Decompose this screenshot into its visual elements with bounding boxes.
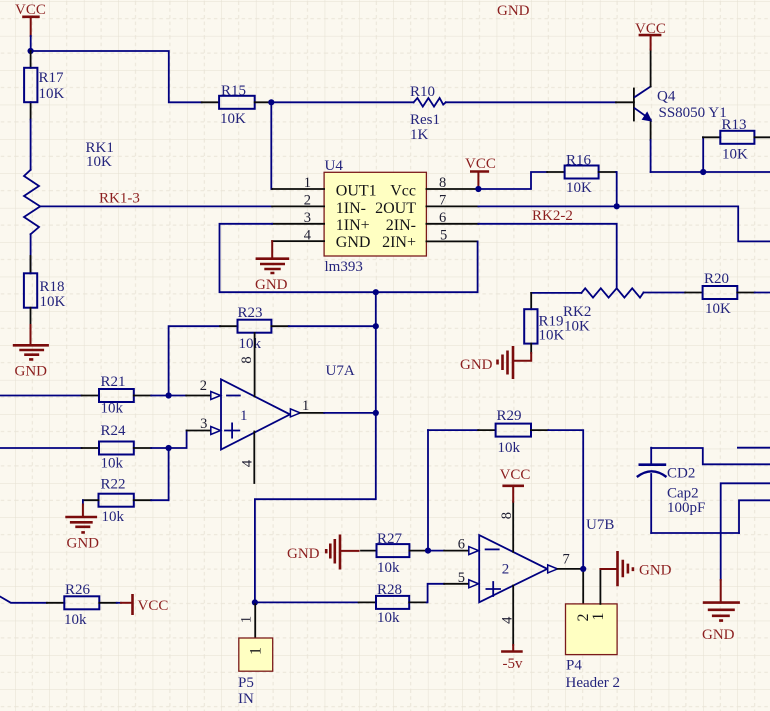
- svg-text:10k: 10k: [101, 456, 124, 472]
- resistor R24: [0, 423, 211, 472]
- wire R28 input net: [255, 601, 359, 603]
- node VCC top-left junction: [28, 48, 34, 54]
- power port GND (top net label): [497, 3, 530, 19]
- svg-text:VCC: VCC: [138, 598, 169, 614]
- wire U4 pin 6 net to RK2 wiper: [478, 224, 616, 288]
- svg-text:10K: 10K: [86, 154, 112, 170]
- svg-text:6: 6: [458, 537, 465, 553]
- wire right edge net to ground: [721, 483, 770, 580]
- svg-text:GND: GND: [702, 627, 735, 643]
- svg-text:RK1-3: RK1-3: [99, 191, 140, 207]
- ground bottom right: [702, 580, 740, 643]
- header P5: [238, 602, 273, 707]
- svg-text:GND: GND: [497, 3, 530, 19]
- svg-text:2IN-: 2IN-: [386, 217, 416, 234]
- svg-text:R20: R20: [704, 271, 729, 287]
- ground at R27 (sideways): [287, 535, 359, 570]
- pin 7 of U4: [426, 193, 478, 209]
- svg-text:100pF: 100pF: [667, 500, 705, 516]
- resistor R22: [83, 477, 169, 525]
- potentiometer RK2: [563, 288, 703, 334]
- svg-text:8: 8: [239, 356, 255, 363]
- svg-text:OUT1: OUT1: [336, 183, 377, 200]
- node R15/R10/U4 junction: [268, 99, 274, 105]
- wire Q4 emitter net to right edge: [651, 171, 770, 173]
- pin 2 of U4: [272, 193, 324, 209]
- ground at P4 pin 1 (sideways): [600, 551, 671, 586]
- IC U4 lm393: [324, 158, 426, 275]
- svg-text:1: 1: [239, 616, 255, 623]
- wire U7B output to P4: [558, 568, 583, 570]
- capacitor CD2: [637, 448, 706, 533]
- svg-text:SS8050 Y1: SS8050 Y1: [659, 105, 727, 121]
- svg-text:RK2-2: RK2-2: [532, 208, 573, 224]
- svg-text:R26: R26: [65, 582, 91, 598]
- resistor R28: [376, 582, 469, 626]
- resistor R13: [703, 117, 770, 172]
- svg-text:R10: R10: [410, 84, 435, 100]
- pin 2 of U7A: [200, 378, 221, 400]
- resistor R15: [219, 83, 271, 127]
- wire right edge stub to CD2 bottom net: [739, 500, 770, 533]
- svg-text:5: 5: [440, 228, 447, 244]
- svg-text:10K: 10K: [539, 328, 565, 344]
- svg-text:8: 8: [439, 175, 446, 191]
- wire R24 junction down to R22: [168, 448, 170, 500]
- resistor R26: [0, 582, 121, 628]
- power port VCC (top-left): [15, 2, 46, 51]
- header P4: [566, 569, 621, 691]
- pin 4 of U4: [272, 228, 324, 244]
- ground at R19 (sideways): [460, 346, 531, 379]
- ground below R22: [65, 505, 99, 552]
- power port VCC at U7B pin 8: [500, 467, 531, 502]
- wire junction to R10: [271, 101, 413, 103]
- op-amp U7B: [479, 517, 614, 602]
- svg-text:10k: 10k: [377, 560, 400, 576]
- node U7B output junction: [580, 566, 586, 572]
- svg-text:GND: GND: [67, 536, 100, 552]
- wire U4 pin 3 loop to pin 5: [220, 224, 478, 292]
- svg-text:Res1: Res1: [410, 112, 440, 128]
- svg-text:3: 3: [200, 416, 207, 432]
- pin 6 of U4: [426, 210, 478, 226]
- svg-text:GND: GND: [255, 277, 288, 293]
- node P5/R28 junction: [252, 599, 258, 605]
- resistor R29: [428, 408, 583, 569]
- svg-text:R27: R27: [377, 531, 403, 547]
- svg-text:10k: 10k: [377, 610, 400, 626]
- ground below R18: [13, 328, 49, 380]
- wire U4 pin 8 to R16: [478, 172, 547, 189]
- svg-text:10K: 10K: [40, 294, 66, 310]
- svg-text:GND: GND: [460, 357, 493, 373]
- transistor Q4 base bar: [633, 89, 635, 121]
- wire stub top right edge: [738, 447, 770, 449]
- pin 7 of U7B (output): [548, 552, 570, 573]
- resistor R27: [361, 531, 469, 576]
- pin 8 of U7B: [499, 502, 515, 552]
- wire VCC junction to R15: [31, 51, 202, 102]
- svg-text:R24: R24: [101, 423, 127, 439]
- wire CD2 bottom net: [651, 532, 739, 534]
- svg-text:10K: 10K: [566, 180, 592, 196]
- svg-text:1: 1: [302, 398, 309, 414]
- wire R29 to pin 6 junction: [427, 430, 429, 550]
- potentiometer RK1: [24, 140, 114, 273]
- svg-text:CD2: CD2: [667, 466, 695, 482]
- svg-text:P5: P5: [238, 675, 254, 691]
- svg-text:Header 2: Header 2: [566, 675, 621, 691]
- resistor R10 (Res1 zigzag): [410, 84, 446, 143]
- svg-text:10K: 10K: [220, 111, 246, 127]
- power port VCC at U4 pin 8: [465, 156, 496, 187]
- svg-text:P4: P4: [566, 658, 582, 674]
- node U7A output junction: [373, 410, 379, 416]
- svg-text:-5v: -5v: [503, 656, 523, 672]
- svg-text:R23: R23: [238, 305, 263, 321]
- pin 5 of U4: [426, 228, 477, 244]
- pin 1 of U7A (output): [290, 398, 309, 417]
- node R21/R23 junction: [166, 392, 172, 398]
- node emitter/R13 junction: [700, 169, 706, 175]
- svg-text:R17: R17: [39, 70, 65, 86]
- svg-text:3: 3: [304, 210, 311, 226]
- node VCC junction on pin 8 net: [475, 186, 481, 192]
- svg-text:U7B: U7B: [586, 517, 614, 533]
- pin 5 of U7B: [458, 570, 479, 588]
- resistor R18: [24, 256, 66, 329]
- power port -5v at U7B pin 4: [501, 645, 523, 672]
- svg-text:R29: R29: [497, 408, 522, 424]
- pin 4 of U7A: [240, 432, 256, 484]
- svg-text:GND: GND: [287, 546, 320, 562]
- wire U7A output chain: [300, 412, 324, 414]
- svg-text:1IN+: 1IN+: [336, 217, 370, 234]
- svg-text:R28: R28: [377, 582, 402, 598]
- wire CD2 top to right edge: [651, 448, 770, 464]
- op-amp U7A: [221, 363, 355, 450]
- svg-text:U4: U4: [325, 158, 344, 174]
- resistor R16: [565, 153, 617, 207]
- svg-text:10K: 10K: [564, 318, 590, 334]
- svg-text:IN: IN: [238, 691, 254, 707]
- ground at U4 pin 4: [255, 241, 289, 293]
- resistor R21: [0, 374, 211, 417]
- pin 8 of U4: [426, 175, 478, 191]
- svg-text:2: 2: [200, 378, 207, 394]
- svg-text:10k: 10k: [101, 401, 124, 417]
- svg-text:R18: R18: [40, 279, 65, 295]
- resistor R23: [169, 305, 376, 395]
- svg-text:2OUT: 2OUT: [375, 200, 416, 217]
- svg-text:10k: 10k: [498, 440, 521, 456]
- svg-text:2: 2: [304, 193, 311, 209]
- wire RK1 wiper to U4 pin 2: [40, 205, 272, 207]
- svg-text:R21: R21: [101, 374, 126, 390]
- node loop junction to U7A output: [373, 289, 379, 295]
- svg-text:1K: 1K: [410, 127, 429, 143]
- svg-text:R16: R16: [566, 153, 592, 169]
- svg-text:Vcc: Vcc: [390, 183, 416, 200]
- svg-text:6: 6: [439, 210, 446, 226]
- svg-text:GND: GND: [15, 364, 48, 380]
- svg-text:1IN-: 1IN-: [336, 200, 366, 217]
- svg-text:7: 7: [439, 193, 446, 209]
- svg-text:8: 8: [499, 512, 515, 519]
- svg-text:1: 1: [248, 647, 265, 655]
- svg-text:10k: 10k: [239, 336, 262, 352]
- svg-text:GND: GND: [639, 563, 672, 579]
- pin 3 of U4: [272, 210, 324, 226]
- pin 3 of U7A: [200, 416, 220, 435]
- pin 6 of U7B: [458, 537, 479, 555]
- svg-text:2: 2: [502, 562, 510, 578]
- svg-text:4: 4: [499, 616, 515, 624]
- power port VCC at Q4 collector: [635, 21, 666, 50]
- svg-text:10k: 10k: [102, 509, 125, 525]
- svg-text:1: 1: [240, 408, 248, 424]
- svg-text:R13: R13: [722, 117, 747, 133]
- svg-text:1: 1: [304, 175, 311, 191]
- svg-text:lm393: lm393: [325, 259, 363, 275]
- resistor R17: [24, 51, 64, 170]
- svg-text:4: 4: [240, 459, 256, 467]
- node R16 to pin 7 junction: [614, 203, 620, 209]
- svg-text:VCC: VCC: [500, 467, 531, 483]
- svg-text:1: 1: [590, 613, 607, 621]
- wire U4 pin 7 net to right edge: [478, 206, 770, 241]
- pin 4 of U7B: [499, 586, 515, 646]
- svg-text:7: 7: [563, 552, 570, 568]
- svg-text:10K: 10K: [39, 86, 65, 102]
- pin 8 of U7A: [239, 333, 255, 397]
- svg-text:GND: GND: [336, 234, 371, 251]
- power port VCC at R26 (sideways): [121, 594, 168, 615]
- transistor Q4: [635, 50, 727, 173]
- svg-text:Q4: Q4: [657, 89, 676, 105]
- resistor R20: [703, 271, 770, 317]
- resistor R19: [524, 293, 581, 353]
- svg-text:VCC: VCC: [465, 156, 496, 172]
- svg-text:10K: 10K: [722, 147, 748, 163]
- svg-text:2IN+: 2IN+: [382, 234, 416, 251]
- node R24/R22 junction: [166, 445, 172, 451]
- svg-text:R22: R22: [101, 477, 126, 493]
- svg-text:10K: 10K: [705, 301, 731, 317]
- svg-text:U7A: U7A: [326, 363, 355, 379]
- svg-text:R15: R15: [221, 83, 246, 99]
- pin 1 of U4: [272, 175, 324, 191]
- svg-text:5: 5: [458, 570, 465, 586]
- wire R10 to Q4 base: [446, 101, 616, 103]
- node R27/R29 junction: [425, 548, 431, 554]
- svg-text:10k: 10k: [64, 612, 87, 628]
- svg-text:4: 4: [304, 228, 312, 244]
- node R23/vertical junction: [373, 323, 379, 329]
- wire junction down to U4 pin 1: [270, 102, 273, 189]
